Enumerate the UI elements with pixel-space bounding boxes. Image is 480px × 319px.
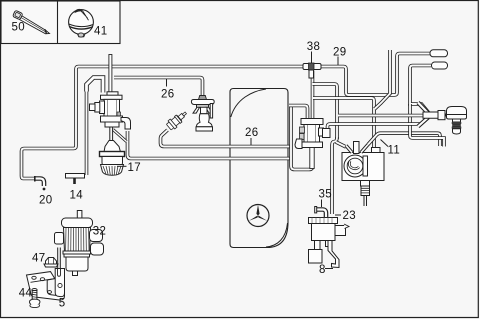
- wire from transducer right inlet along y133 to hook: [368, 133, 440, 146]
- hose capsule connector lower: [432, 62, 448, 69]
- svg-text:26: 26: [245, 127, 258, 139]
- inset divider: [57, 1, 59, 44]
- air cleaner housing outline: [230, 89, 288, 248]
- wire manifold source to right valve top: [289, 106, 308, 120]
- svg-text:38: 38: [307, 41, 320, 53]
- svg-text:26: 26: [161, 89, 174, 101]
- housing inner curve top-left: [231, 89, 266, 117]
- svg-text:44: 44: [19, 288, 33, 300]
- screw 44: [30, 289, 40, 308]
- wire main vacuum line with left loop to elbow 20 and capsule 1: [22, 54, 432, 179]
- ball reservoir item 41: [69, 9, 94, 37]
- wire open ended hose x390: [375, 50, 391, 109]
- wire hose from connector 14 up to left valve elbow: [85, 89, 89, 175]
- svg-text:41: 41: [94, 26, 107, 38]
- wire line y98 over and down x374 into transducer: [313, 98, 374, 149]
- hose capsule connector upper: [430, 50, 448, 57]
- svg-text:35: 35: [319, 189, 332, 201]
- wire diagonal to transducer left inlet: [336, 142, 346, 147]
- wire T38 stub down into right valve: [311, 71, 315, 119]
- svg-text:5: 5: [59, 297, 66, 309]
- wire from right valve port along y124 to Y lower arm: [328, 118, 429, 129]
- thermo valve cap: [447, 107, 467, 135]
- wire line 26 to EGR valve: [114, 78, 203, 97]
- elbow connector 20: [35, 176, 46, 190]
- svg-text:17: 17: [128, 162, 141, 174]
- vacuum reservoir 23: [309, 218, 350, 264]
- EGR valve assembly: [191, 96, 214, 132]
- wire capsule2 line down x410 to Y upper arm: [410, 66, 431, 113]
- svg-text:32: 32: [93, 226, 106, 238]
- wire U loop under right valve: [291, 104, 313, 170]
- T-connector 38: [303, 63, 321, 78]
- housing inner curve bottom-right: [266, 223, 288, 247]
- wire hose from angled connector down to line y146: [161, 130, 292, 147]
- svg-text:8: 8: [319, 264, 326, 276]
- wire long line y115 into Y junction: [338, 114, 426, 118]
- wire jog down to canister 23: [332, 137, 337, 214]
- tube connector 14: [66, 174, 85, 185]
- pipe collar into transducer 11: [372, 148, 381, 154]
- svg-text:29: 29: [333, 47, 346, 59]
- flange nut 47: [44, 258, 58, 268]
- wire x410 down to second hook: [410, 104, 444, 147]
- screw item 50: [13, 10, 50, 34]
- angled inline connector: [165, 109, 189, 131]
- check valve 17 stem: [109, 127, 111, 141]
- wire hose from left valve right elbow down and right: [128, 131, 292, 159]
- Y distribution junction: [418, 103, 449, 127]
- svg-text:20: 20: [39, 194, 52, 206]
- check valve 17 body: [104, 141, 121, 153]
- svg-text:14: 14: [70, 189, 84, 201]
- elbow fitting on left valve top-left: [87, 78, 104, 93]
- wire branch from T38 line down at x337: [313, 84, 338, 139]
- mounting bracket 5: [27, 248, 65, 301]
- switchover valve assembly left: [90, 92, 131, 142]
- pipe above left valve: [109, 55, 112, 93]
- electric vacuum pump 32: [55, 211, 104, 276]
- inset parts box: [1, 1, 120, 44]
- svg-text:11: 11: [388, 145, 401, 157]
- elbow fitting 35: [317, 210, 327, 218]
- wire diagonal from valve stem to drop hose: [113, 130, 127, 142]
- svg-text:50: 50: [12, 22, 25, 34]
- drain elbow 8: [328, 241, 339, 268]
- svg-text:47: 47: [32, 253, 45, 265]
- svg-text:23: 23: [343, 210, 356, 222]
- Mercedes star emblem: [247, 205, 269, 227]
- switchover valve assembly right: [295, 119, 330, 169]
- vacuum transducer 11: [342, 142, 384, 207]
